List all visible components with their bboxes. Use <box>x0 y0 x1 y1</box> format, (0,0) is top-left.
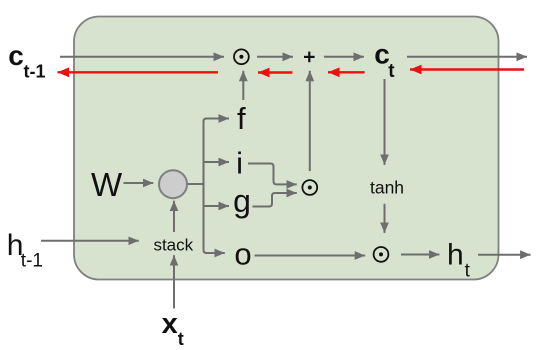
svg-text:tanh: tanh <box>370 178 404 198</box>
svg-text:f: f <box>237 101 246 136</box>
svg-text:t-1: t-1 <box>21 250 43 271</box>
svg-text:t: t <box>388 61 395 82</box>
svg-text:t: t <box>178 329 184 349</box>
svg-text:t-1: t-1 <box>24 62 46 82</box>
svg-text:i: i <box>236 146 243 181</box>
svg-text:W: W <box>91 166 123 203</box>
svg-text:stack: stack <box>153 235 193 254</box>
svg-text:t: t <box>465 260 471 281</box>
svg-text:x: x <box>162 308 178 340</box>
svg-text:c: c <box>8 40 24 71</box>
svg-text:h: h <box>447 239 464 272</box>
svg-text:o: o <box>234 237 251 272</box>
svg-text:g: g <box>233 183 251 219</box>
